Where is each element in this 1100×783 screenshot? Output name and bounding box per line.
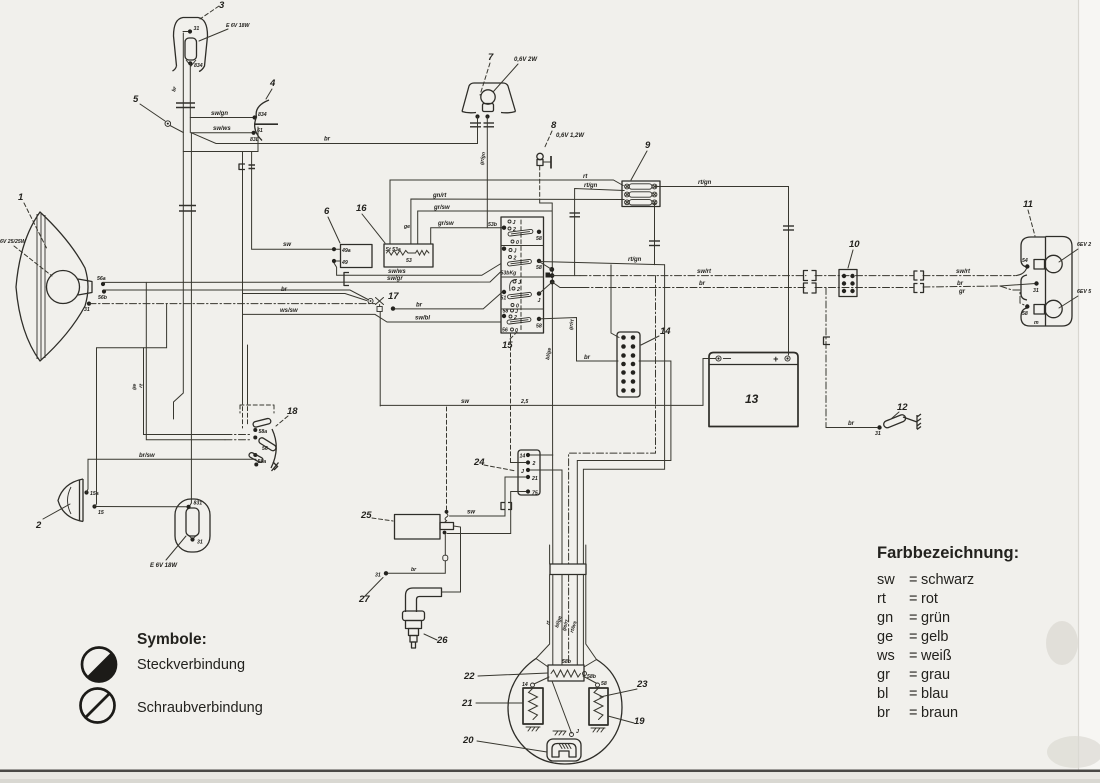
wire rt/gn to fuse block [575, 183, 625, 276]
wire sw/ws [334, 263, 501, 275]
svg-text:br: br [281, 287, 288, 293]
cable clamp on twins lower [179, 206, 196, 212]
svg-text:gr: gr [958, 289, 966, 295]
fuse link (item 12) [877, 414, 921, 430]
terminal 61 at clamp 4 [250, 128, 263, 143]
pilot rating 0,6V 2W [493, 57, 538, 92]
svg-text:J: J [514, 249, 517, 255]
svg-text:58a: 58a [259, 429, 268, 435]
label 21 with leader [461, 698, 523, 709]
svg-text:sw/ws: sw/ws [388, 269, 406, 275]
svg-text:831: 831 [194, 501, 203, 507]
flasher box (item 6) [332, 245, 372, 268]
svg-text:56: 56 [502, 328, 508, 334]
svg-text:br: br [584, 355, 591, 361]
svg-text:4: 4 [269, 78, 276, 89]
svg-text:sw: sw [467, 510, 475, 516]
wire gr/sw bus (y211) [418, 205, 552, 244]
magneto housing circle (item 19) [508, 659, 622, 765]
label 25 with leader [360, 510, 393, 521]
svg-text:m: m [1034, 320, 1039, 326]
screw connection symbol [81, 689, 115, 723]
ignition coil (item 25) [395, 515, 454, 540]
speedometer lamp (item 8) [537, 153, 551, 168]
switch row3 contacts [501, 279, 542, 309]
svg-text:23: 23 [636, 679, 648, 690]
svg-text:gr: gr [877, 667, 890, 683]
svg-text:rt/gn: rt/gn [584, 183, 598, 189]
svg-text:3: 3 [219, 0, 225, 11]
label 23 with leader [600, 679, 648, 697]
label 13 [745, 392, 759, 406]
svg-text:rot: rot [921, 591, 938, 607]
svg-text:2: 2 [513, 256, 517, 262]
terminal strip (item 14) [617, 332, 640, 397]
wire rt bus (y180) [390, 174, 623, 244]
magneto feed wires below band [536, 545, 597, 667]
svg-text:1: 1 [18, 192, 23, 203]
svg-text:2: 2 [532, 461, 536, 467]
cable clamp on twins upper [176, 103, 195, 108]
magneto wire bundle clamp band [550, 564, 586, 575]
wire from item 8 down (dashed) [540, 166, 553, 203]
svg-text:sw/gr: sw/gr [387, 276, 403, 282]
svg-text:27: 27 [358, 594, 370, 605]
svg-text:58: 58 [601, 681, 607, 687]
svg-text:13: 13 [745, 392, 759, 406]
switch row1 terminal label 53b [488, 222, 498, 228]
label 17 [388, 291, 399, 302]
svg-text:58: 58 [536, 236, 542, 242]
wire from 17 down to sw bus [379, 312, 381, 407]
wire from fuse row3 down [654, 202, 656, 264]
wire gr/sw from resistor to switch row1 [403, 221, 502, 244]
tail lamp terminal 31 [1033, 281, 1039, 294]
svg-text:11: 11 [1023, 199, 1033, 210]
wire dashed from switch box to block 24 [511, 333, 527, 463]
wire from switch row4 via strip to magneto [539, 318, 671, 565]
svg-text:J: J [521, 469, 524, 475]
svg-text:J: J [513, 220, 516, 226]
label 10 with leader [848, 239, 860, 268]
headlight switch box (item 15) [501, 217, 544, 333]
svg-text:8: 8 [551, 120, 557, 131]
rotated wire labels above magneto [545, 615, 578, 633]
svg-text:12: 12 [897, 402, 908, 413]
svg-text:15a: 15a [90, 491, 99, 497]
svg-text:gelb: gelb [921, 629, 948, 645]
svg-text:schwarz: schwarz [921, 572, 974, 588]
resistor assembly (item 16) [384, 244, 433, 267]
svg-text:31: 31 [84, 307, 90, 313]
svg-text:53: 53 [406, 258, 412, 264]
magneto coil right (item 23) [589, 681, 608, 732]
svg-text:=: = [909, 686, 917, 702]
horn terminal lower [92, 504, 103, 516]
svg-text:br: br [877, 705, 890, 721]
svg-text:br/sw: br/sw [139, 453, 155, 459]
svg-text:19: 19 [634, 716, 645, 727]
wire sw into box 6 [252, 152, 332, 250]
connector block (item 10) [839, 270, 857, 297]
connector 5 (screw) [165, 121, 183, 133]
svg-text:=: = [909, 572, 917, 588]
svg-text:51: 51 [501, 296, 507, 302]
svg-text:br: br [699, 281, 706, 287]
wire: twin vertical right (191) [189, 63, 191, 507]
svg-text:53b: 53b [488, 222, 498, 228]
wire sw/gr [387, 276, 403, 282]
bulb rating 6EV2 [1059, 242, 1091, 262]
svg-text:sw/ws: sw/ws [213, 126, 231, 132]
svg-text:21: 21 [461, 698, 473, 709]
wire: strip feed down [611, 265, 619, 338]
label 5 with leader [133, 94, 165, 121]
label 16 with leader [356, 203, 385, 243]
label 14 with leader [641, 326, 671, 345]
wire block24-21 to coil sw [450, 477, 527, 516]
svg-text:0,6V 2W: 0,6V 2W [514, 57, 538, 63]
svg-text:E 6V 18W: E 6V 18W [150, 563, 178, 569]
svg-text:58: 58 [536, 324, 542, 330]
switch row2 contacts [501, 247, 542, 277]
ignition source coil (item 20) [547, 729, 581, 761]
switch row4 contacts [502, 309, 542, 335]
bulb rating 6EV5 [1059, 289, 1091, 308]
svg-text:=: = [909, 705, 917, 721]
svg-text:rt/gn: rt/gn [628, 257, 642, 263]
svg-text:=: = [909, 648, 917, 664]
wire sw/rt fork to magneto [569, 276, 656, 564]
label 8 with leader [544, 120, 557, 149]
svg-text:blau: blau [921, 686, 948, 702]
label 4 with leader [266, 78, 276, 99]
svg-text:18: 18 [287, 406, 298, 417]
inline connector brackets left of block 10 [804, 271, 817, 294]
svg-text:=: = [909, 610, 917, 626]
svg-text:49a: 49a [341, 248, 351, 254]
junction cluster at switch right [539, 203, 555, 564]
svg-text:56: 56 [262, 446, 268, 452]
legend Farbbezeichnung [877, 544, 1019, 562]
dimmer connector (item 17) [368, 298, 395, 312]
horn (item 2) [58, 479, 83, 522]
label 18 with leader [276, 406, 298, 426]
terminal 834 at clamp 4 [253, 112, 267, 120]
legend text Steckverbindung [137, 657, 245, 673]
wire: pilot left terminal down to br bus [477, 117, 479, 144]
label 27 with leader [358, 578, 383, 606]
label 19 with leader [608, 716, 645, 727]
svg-text:26: 26 [436, 635, 448, 646]
wire block24-75 to coil [447, 492, 526, 534]
terminal (item 27) [375, 535, 448, 579]
svg-text:75: 75 [532, 491, 538, 497]
label 20 with leader [462, 735, 547, 752]
svg-text:16: 16 [356, 203, 367, 214]
label 6 with leader [324, 206, 340, 243]
wire: horn lower to spare bulb [97, 506, 187, 508]
svg-text:15: 15 [502, 340, 513, 351]
svg-text:bl: bl [877, 686, 888, 702]
ignition switch (item 18) [240, 405, 279, 471]
headlamp rating text 6V 25/25W [0, 239, 52, 276]
svg-text:Schraubverbindung: Schraubverbindung [137, 700, 263, 716]
magneto lighting coil resistor (item 22) [548, 659, 597, 681]
wire 56a bus [103, 272, 501, 283]
wire br from 17 to switch row3 [395, 292, 502, 309]
wire label br (rotated) [171, 85, 178, 93]
svg-text:weiß: weiß [920, 648, 952, 664]
wire: horn feed lower [95, 304, 167, 507]
label 11 with leader [1023, 199, 1035, 236]
svg-text:braun: braun [921, 705, 958, 721]
svg-text:31: 31 [875, 431, 881, 437]
svg-text:2,5: 2,5 [520, 399, 528, 405]
svg-text:10: 10 [849, 239, 860, 250]
tail lamp terminal 58 [1022, 304, 1039, 326]
battery (item 13) [709, 353, 798, 427]
svg-text:15: 15 [98, 510, 104, 516]
dome bulb terminal 31 [183, 26, 199, 34]
wire block24-J to magneto [530, 470, 562, 564]
svg-text:gn: gn [877, 610, 893, 626]
wire battery minus bus sw [380, 359, 716, 406]
label 7 with leader [480, 52, 494, 95]
wire br bus (junction 4 to pilot) [191, 133, 477, 144]
label 1 with leader [18, 192, 47, 249]
bulb rating E 6V 18W [199, 23, 250, 41]
wire 56b to connector 17 [104, 290, 368, 300]
svg-text:49: 49 [341, 260, 348, 266]
svg-text:834: 834 [194, 63, 203, 69]
svg-text:rt/gn: rt/gn [698, 180, 712, 186]
svg-text:J: J [518, 280, 521, 286]
clamp bracket on sw wire [501, 503, 512, 510]
svg-text:14: 14 [520, 454, 526, 460]
inline connector brackets right of block 10 [914, 271, 924, 293]
svg-text:6: 6 [324, 206, 330, 217]
svg-text:53bKg: 53bKg [501, 271, 518, 277]
wire sw/rt long bus [552, 269, 1027, 276]
wire: horn feed upper br/sw [87, 453, 257, 493]
svg-text:834: 834 [258, 112, 267, 118]
tail light dome (item 3) [173, 18, 208, 72]
svg-text:54: 54 [1022, 258, 1028, 264]
svg-text:56b: 56b [98, 295, 108, 301]
svg-text:rt: rt [877, 591, 886, 607]
wire: 56a branch down to switch 18 [138, 282, 252, 439]
svg-text:2: 2 [35, 520, 42, 531]
spare bulb rating E 6V 18W [150, 536, 186, 569]
svg-text:9: 9 [645, 140, 651, 151]
svg-text:2: 2 [516, 287, 520, 293]
svg-text:6EV 5: 6EV 5 [1077, 289, 1091, 295]
svg-text:Symbole:: Symbole: [137, 631, 207, 648]
svg-text:0: 0 [516, 240, 519, 246]
svg-text:ws/sw: ws/sw [280, 308, 298, 314]
svg-text:7: 7 [488, 52, 494, 63]
svg-text:ge: ge [403, 224, 410, 230]
pilot lamp (item 7) [462, 83, 516, 113]
svg-text:31: 31 [194, 26, 200, 32]
wire gn/rt bus (y199) [411, 193, 624, 244]
svg-text:17: 17 [388, 291, 399, 302]
wire: vertical to ignition switch 18 [183, 127, 258, 428]
wires inside magneto [534, 676, 596, 733]
wire: twin vertical left (183) [174, 33, 184, 419]
svg-text:gn/rt: gn/rt [432, 193, 447, 199]
spare bulb terminal 831 [186, 501, 202, 509]
svg-text:58b: 58b [562, 659, 572, 665]
wire sw/gn to clamp 4 [190, 111, 252, 118]
svg-text:31: 31 [375, 573, 381, 579]
label 24 with leader [473, 457, 516, 471]
svg-text:—: — [722, 354, 732, 363]
svg-text:J: J [538, 298, 541, 304]
svg-text:14: 14 [660, 326, 671, 337]
svg-text:sw: sw [877, 572, 895, 588]
rating 0,6V 1,2W [556, 133, 585, 139]
wire: ge branch to switch 18 [131, 348, 252, 435]
svg-text:sw/rt: sw/rt [697, 269, 712, 275]
wire br to connector 17 [243, 287, 367, 301]
svg-text:6V 25/25W: 6V 25/25W [0, 239, 27, 245]
wire br to fuse link [826, 288, 881, 438]
dome bulb terminal 834 [188, 61, 203, 69]
svg-text:br: br [416, 303, 423, 309]
svg-text:31: 31 [197, 540, 203, 546]
tail lamp assembly (item 11) [1021, 237, 1072, 327]
svg-text:br: br [324, 137, 331, 143]
label 15 with leader [502, 332, 517, 351]
clamp on fuse row3 wire [649, 241, 660, 246]
svg-text:grau: grau [921, 667, 950, 683]
wire block24-14 to magneto [530, 454, 553, 456]
legend Symbole [137, 631, 207, 648]
svg-text:58: 58 [503, 309, 509, 315]
label 2 with leader [35, 504, 70, 531]
label 26 with leader [424, 634, 448, 646]
magneto coil left (item 21) [522, 682, 543, 731]
svg-text:56a: 56a [97, 276, 106, 282]
svg-text:22: 22 [463, 671, 475, 682]
svg-text:Farbbezeichnung:: Farbbezeichnung: [877, 544, 1019, 562]
label 22 with leader [463, 671, 548, 682]
spark plug cable and plug (item 26) [403, 526, 461, 648]
svg-text:24: 24 [473, 457, 485, 468]
label 12 with leader [891, 402, 908, 419]
spare bulb terminal 31 [190, 537, 202, 545]
svg-text:sw/rt: sw/rt [956, 269, 971, 275]
svg-text:25: 25 [360, 510, 372, 521]
headlamp H1 (item 1) [16, 212, 92, 361]
svg-text:=: = [909, 629, 917, 645]
svg-text:ge: ge [877, 629, 893, 645]
wire ground bus 31 (dash-dot) [89, 303, 375, 305]
headlamp bulb terminal 56b [98, 289, 108, 301]
wiring junction block (item 24) [518, 450, 540, 497]
plug connection symbol [82, 648, 116, 682]
svg-text:ws: ws [876, 648, 895, 664]
wire gr/gn: pilot right terminal down [479, 117, 487, 228]
fuse block (item 9) [622, 181, 660, 207]
svg-text:sw: sw [461, 399, 469, 405]
svg-text:sw: sw [283, 242, 291, 248]
headlamp ground terminal 31 [84, 302, 91, 314]
svg-text:14: 14 [522, 682, 528, 688]
wire rt/gn right bus to battery plus [655, 180, 789, 355]
switch row1 contacts [502, 220, 542, 246]
svg-text:gr/sw: gr/sw [437, 221, 454, 227]
wire br bus to right [552, 281, 1035, 307]
handlebar clamp bar (item 4) [254, 100, 278, 141]
svg-text:21: 21 [531, 476, 538, 482]
svg-text:br: br [957, 281, 964, 287]
clamp on rt/gn vertical [570, 213, 581, 217]
horn terminal upper [84, 490, 98, 497]
tail lamp terminal 54 [1022, 258, 1030, 269]
wire ws/sw / sw-bl into switch row4 [243, 308, 502, 322]
svg-text:58: 58 [1022, 311, 1028, 317]
headlamp bulb terminal 56a [97, 276, 106, 286]
pilot lamp terminals [475, 114, 489, 118]
svg-text:E 6V 18W: E 6V 18W [226, 23, 250, 29]
svg-text:58: 58 [536, 265, 542, 271]
label 3 with leader [200, 0, 225, 19]
clamp on battery wire [783, 226, 794, 230]
svg-text:=: = [909, 667, 917, 683]
clamp bracket at left of sw wires [344, 273, 349, 286]
svg-text:31: 31 [1033, 288, 1039, 294]
wire rt/gn from switch to magneto corner [539, 257, 665, 265]
svg-text:=: = [909, 591, 917, 607]
wire sw/ws to clamp 4 [191, 126, 251, 133]
svg-text:+: + [773, 354, 779, 364]
svg-text:gr/sw: gr/sw [433, 205, 450, 211]
svg-text:J: J [576, 729, 579, 735]
wire: rt/gn corner down-left to magneto [583, 265, 664, 564]
spare bulb oval [175, 499, 210, 552]
svg-text:2: 2 [513, 315, 517, 321]
svg-text:6EV 2: 6EV 2 [1077, 242, 1091, 248]
svg-text:0,6V 1,2W: 0,6V 1,2W [556, 133, 585, 139]
svg-text:sw/bl: sw/bl [415, 316, 430, 322]
svg-text:5: 5 [133, 94, 139, 105]
svg-text:Steckverbindung: Steckverbindung [137, 657, 245, 673]
svg-text:20: 20 [462, 735, 474, 746]
svg-text:br: br [848, 421, 855, 427]
svg-text:sw/gn: sw/gn [211, 111, 228, 117]
svg-text:grün: grün [921, 610, 950, 626]
label 9 with leader [631, 140, 651, 180]
legend text Schraubverbindung [137, 700, 263, 716]
wire label bl/ge rotated [545, 347, 553, 360]
clamp on pilot wires [470, 123, 494, 127]
clamp bracket on fuse link wire [824, 337, 831, 345]
